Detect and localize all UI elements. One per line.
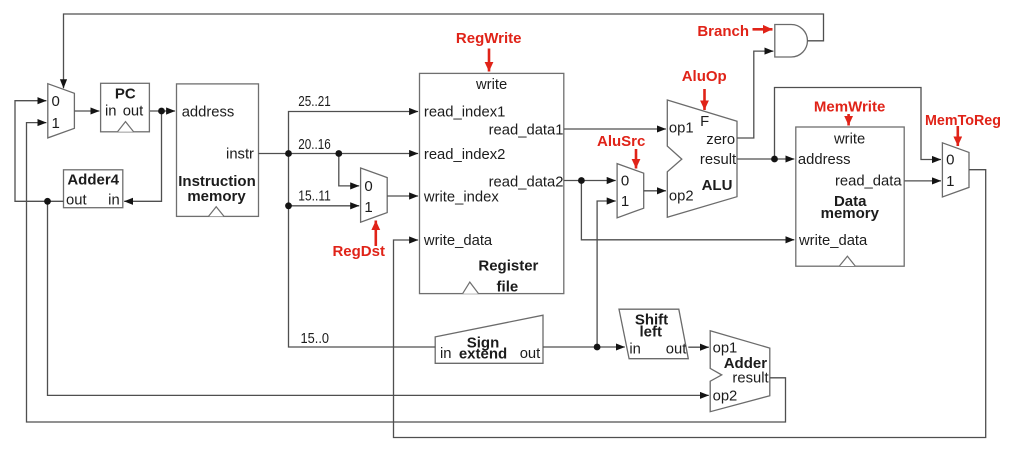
svg-text:ALU: ALU	[702, 177, 733, 194]
svg-text:in: in	[629, 341, 641, 357]
svg-text:result: result	[700, 152, 736, 168]
svg-text:read_index1: read_index1	[424, 105, 505, 121]
svg-text:read_data2: read_data2	[489, 174, 564, 190]
svg-text:file: file	[497, 278, 519, 295]
svg-text:memory: memory	[187, 188, 246, 205]
svg-text:AluOp: AluOp	[682, 68, 727, 85]
svg-text:0: 0	[946, 152, 954, 169]
svg-text:zero: zero	[706, 132, 735, 148]
svg-text:in: in	[440, 346, 452, 362]
svg-text:1: 1	[621, 193, 629, 210]
svg-text:memory: memory	[821, 205, 880, 222]
svg-text:read_data: read_data	[835, 173, 902, 189]
svg-text:15..11: 15..11	[298, 188, 331, 204]
svg-text:out: out	[123, 104, 144, 120]
svg-text:Branch: Branch	[697, 23, 749, 40]
svg-text:0: 0	[364, 178, 372, 195]
svg-text:RegWrite: RegWrite	[456, 30, 522, 47]
svg-text:address: address	[798, 152, 851, 168]
svg-text:result: result	[732, 370, 768, 386]
svg-text:MemToReg: MemToReg	[925, 112, 1001, 129]
svg-text:op2: op2	[669, 188, 694, 204]
svg-text:write: write	[475, 77, 507, 93]
svg-text:1: 1	[364, 199, 372, 216]
svg-text:PC: PC	[115, 86, 136, 103]
svg-text:write_data: write_data	[798, 233, 868, 249]
svg-text:20..16: 20..16	[298, 137, 331, 153]
svg-text:0: 0	[52, 93, 60, 110]
svg-text:extend: extend	[459, 346, 507, 363]
svg-text:instr: instr	[226, 146, 254, 162]
svg-text:write: write	[833, 131, 865, 147]
svg-text:address: address	[182, 104, 235, 120]
svg-text:write_data: write_data	[423, 233, 493, 249]
svg-text:MemWrite: MemWrite	[814, 99, 885, 116]
svg-text:in: in	[108, 193, 120, 209]
svg-text:1: 1	[52, 115, 60, 132]
svg-text:write_index: write_index	[423, 190, 499, 206]
svg-text:0: 0	[621, 173, 629, 190]
svg-text:in: in	[105, 104, 117, 120]
svg-text:25..21: 25..21	[298, 94, 331, 110]
svg-text:AluSrc: AluSrc	[597, 133, 645, 150]
svg-text:Register: Register	[478, 258, 538, 275]
svg-text:out: out	[666, 341, 687, 357]
svg-text:out: out	[66, 193, 87, 209]
svg-text:op1: op1	[669, 120, 694, 136]
svg-text:15..0: 15..0	[301, 331, 330, 347]
svg-text:read_data1: read_data1	[489, 122, 564, 138]
svg-text:Adder4: Adder4	[67, 172, 119, 189]
svg-text:op2: op2	[713, 388, 738, 404]
svg-text:left: left	[639, 324, 662, 341]
svg-text:1: 1	[946, 173, 954, 190]
svg-text:read_index2: read_index2	[424, 147, 505, 163]
svg-text:F: F	[700, 114, 709, 130]
svg-text:out: out	[520, 346, 541, 362]
